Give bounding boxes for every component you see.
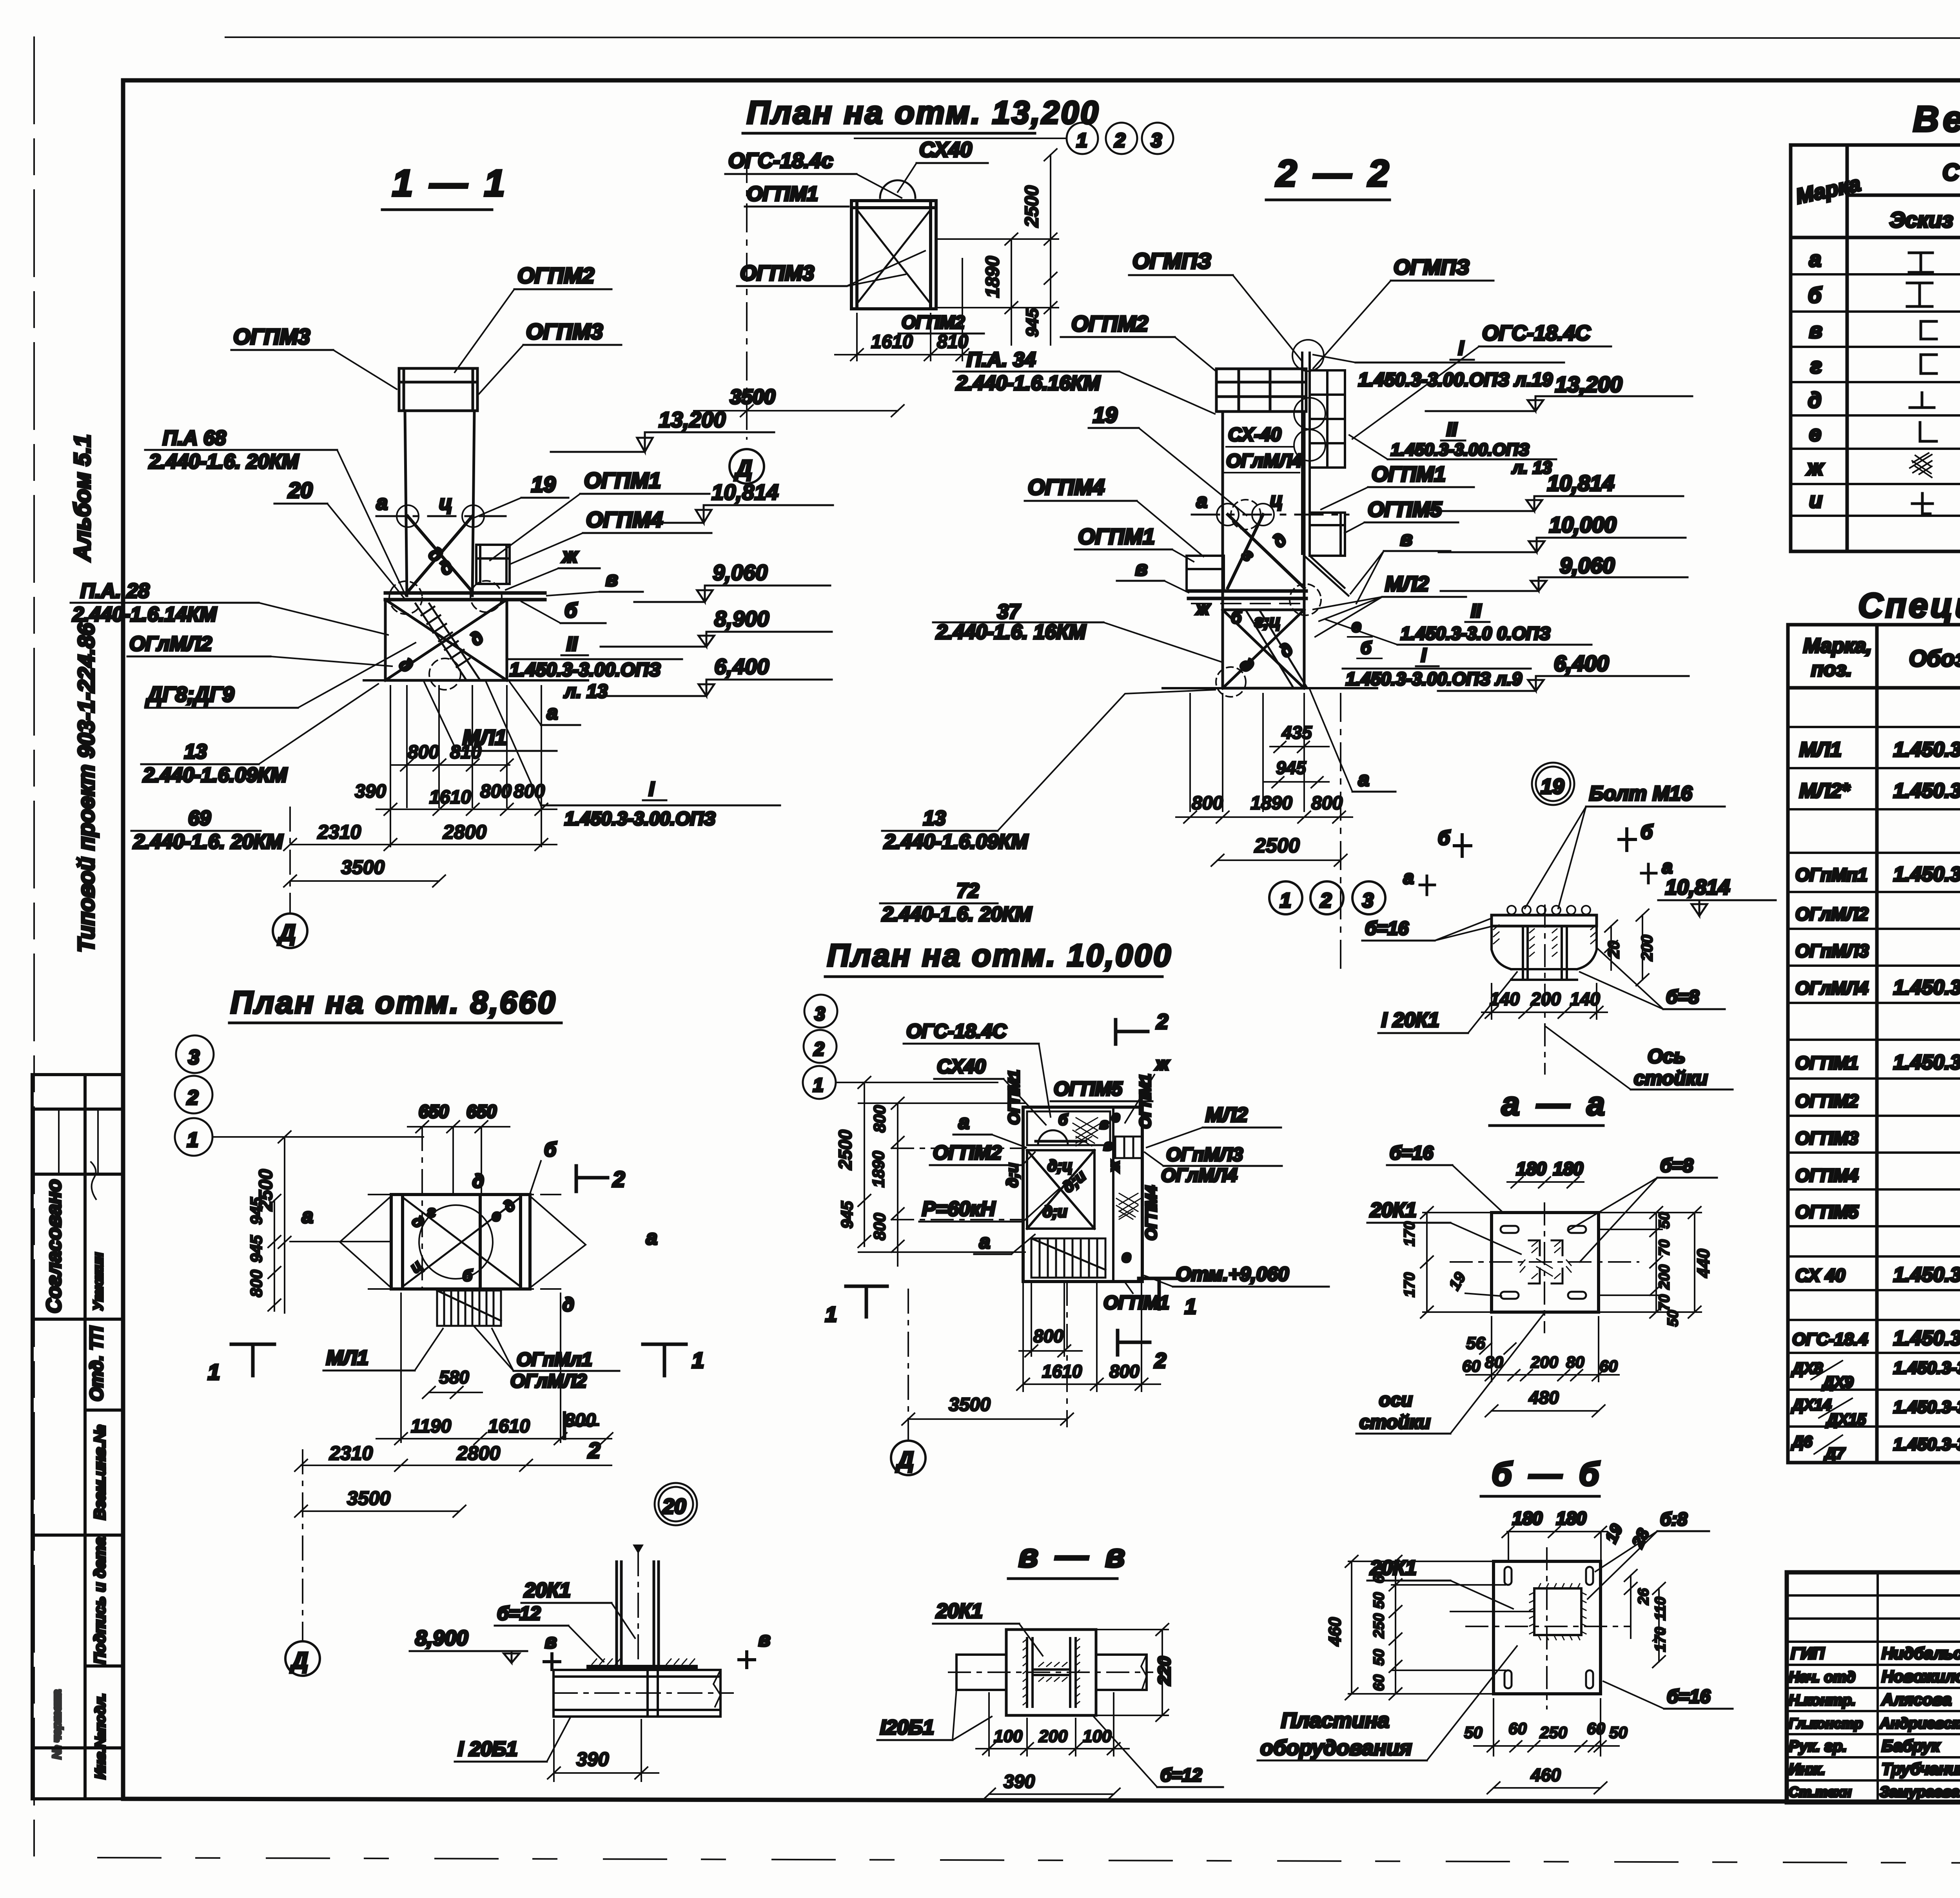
svg-text:Инж.: Инж. <box>1789 1761 1826 1778</box>
section marks <box>846 1286 887 1317</box>
svg-text:1.450.3-3.1 3.1.0.1.0-03: 1.450.3-3.1 3.1.0.1.0-03 <box>1893 1264 1960 1286</box>
svg-text:1890: 1890 <box>982 256 1003 298</box>
svg-text:200: 200 <box>1038 1727 1068 1746</box>
svg-text:І20Б1: І20Б1 <box>880 1716 934 1739</box>
svg-text:3: 3 <box>1151 129 1162 151</box>
lower braced panel 2-2 <box>1223 610 1304 688</box>
svg-text:2800: 2800 <box>456 1442 500 1464</box>
svg-text:10,814: 10,814 <box>1547 471 1614 495</box>
lower ladder ML1 <box>437 1291 501 1326</box>
svg-text:СХ40: СХ40 <box>919 138 972 161</box>
svg-text:810: 810 <box>450 742 481 763</box>
svg-text:60: 60 <box>1371 1675 1387 1691</box>
svg-text:План на отм. 8,660: План на отм. 8,660 <box>230 985 557 1020</box>
svg-text:Алясова: Алясова <box>1881 1690 1951 1709</box>
svg-text:1190: 1190 <box>411 1416 452 1437</box>
svg-text:800: 800 <box>514 781 545 802</box>
svg-text:1.450.3-3.1: 1.450.3-3.1 <box>1893 1435 1960 1454</box>
top cell with SH40 <box>1027 1111 1110 1145</box>
mesh patch top <box>1073 1118 1101 1146</box>
right level marks <box>551 407 833 696</box>
svg-text:50: 50 <box>1371 1592 1387 1609</box>
svg-text:ОГпМл1: ОГпМл1 <box>517 1349 592 1370</box>
svg-text:д: д <box>472 1171 484 1192</box>
svg-text:1.450.3-3.00.ОПЗ л.19: 1.450.3-3.00.ОПЗ л.19 <box>1358 370 1553 390</box>
svg-text:д: д <box>1268 529 1290 551</box>
right dims <box>1624 1570 1669 1668</box>
svg-text:1.450.3-3.1 4.1.2.1.0: 1.450.3-3.1 4.1.2.1.0 <box>1893 976 1960 999</box>
svg-text:д: д <box>466 627 487 650</box>
svg-text:ОГПМ5: ОГПМ5 <box>1368 498 1442 521</box>
svg-text:390: 390 <box>576 1748 609 1770</box>
svg-text:ж: ж <box>1806 455 1824 480</box>
svg-text:б=8: б=8 <box>1660 1155 1693 1176</box>
svg-text:стойки: стойки <box>1634 1067 1708 1089</box>
svg-text:в: в <box>1103 1137 1112 1154</box>
svg-text:6,400: 6,400 <box>1554 651 1609 676</box>
svg-text:II: II <box>566 633 578 655</box>
left margin vertical labels <box>32 434 123 1799</box>
svg-text:а: а <box>1196 490 1207 512</box>
svg-text:а: а <box>302 1205 313 1227</box>
svg-text:б=16: б=16 <box>1390 1143 1433 1164</box>
svg-text:19: 19 <box>1541 775 1564 798</box>
svg-text:а: а <box>1358 768 1369 790</box>
svg-text:б: б <box>1641 821 1653 843</box>
svg-text:ОГПМ5: ОГПМ5 <box>1795 1202 1859 1222</box>
svg-text:1.450.3-3.00.ОПЗ л.9: 1.450.3-3.00.ОПЗ л.9 <box>1346 669 1522 689</box>
ML2 box <box>1115 1137 1142 1158</box>
svg-text:1: 1 <box>187 1129 198 1151</box>
column <box>617 1562 659 1666</box>
svg-text:50: 50 <box>1464 1723 1483 1742</box>
svg-text:б=8: б=8 <box>1666 987 1699 1008</box>
svg-text:2.440-1.6. 20КМ: 2.440-1.6. 20КМ <box>149 450 299 473</box>
svg-text:3: 3 <box>815 1004 825 1024</box>
small dims right <box>1605 909 1656 986</box>
axis D circle <box>273 914 307 948</box>
plan main rect <box>391 1195 530 1289</box>
svg-text:2.440-1.6. 20КМ: 2.440-1.6. 20КМ <box>882 903 1032 926</box>
svg-text:1.450.3-3.00.ОПЗ: 1.450.3-3.00.ОПЗ <box>564 809 716 829</box>
svg-text:3500: 3500 <box>949 1394 991 1415</box>
svg-text:д;ц: д;ц <box>1047 1157 1073 1175</box>
svg-text:Подпись и дата: Подпись и дата <box>91 1537 109 1664</box>
small box OGPM4 right <box>476 545 510 584</box>
ground line <box>1163 687 1377 689</box>
section marks 1 bottom <box>231 1344 274 1376</box>
svg-text:1.450.3-3.1: 1.450.3-3.1 <box>1893 1398 1960 1417</box>
svg-text:I: I <box>649 778 655 800</box>
svg-text:Пластина: Пластина <box>1281 1709 1389 1732</box>
node circles <box>1231 500 1261 529</box>
svg-text:200: 200 <box>1530 989 1561 1009</box>
svg-text:в — в: в — в <box>1018 1537 1129 1574</box>
bolts row <box>1507 906 1590 914</box>
top platform grid <box>1216 369 1306 412</box>
svg-text:ОГПМ3: ОГПМ3 <box>526 319 603 344</box>
svg-text:СХ40: СХ40 <box>937 1055 986 1077</box>
left dims <box>835 1077 1025 1266</box>
svg-text:б — б: б — б <box>1492 1456 1603 1492</box>
svg-text:д: д <box>500 1196 519 1216</box>
svg-text:50: 50 <box>1656 1212 1673 1229</box>
svg-text:2: 2 <box>588 1438 600 1463</box>
detail circle 20 <box>659 1487 693 1521</box>
svg-text:26: 26 <box>1635 1588 1652 1605</box>
svg-text:60: 60 <box>1508 1719 1527 1738</box>
svg-text:ОГлМЛ2: ОГлМЛ2 <box>510 1371 587 1392</box>
svg-text:ОГлМЛ4: ОГлМЛ4 <box>1795 978 1868 998</box>
svg-text:II: II <box>1471 601 1482 622</box>
svg-text:Д: Д <box>895 1447 914 1473</box>
svg-text:Обозначение: Обозначение <box>1909 646 1960 671</box>
right small platform OGPM5 <box>1310 513 1345 556</box>
svg-text:250: 250 <box>1371 1613 1387 1639</box>
svg-text:1.450.3-31 1.2.1.0.0-03: 1.450.3-31 1.2.1.0.0-03 <box>1893 780 1960 802</box>
svg-text:650: 650 <box>419 1101 449 1122</box>
svg-text:2: 2 <box>1320 889 1332 912</box>
svg-text:а — а: а — а <box>1501 1085 1609 1122</box>
svg-text:170: 170 <box>1401 1273 1418 1297</box>
right strip <box>1112 1107 1114 1282</box>
svg-text:ОГПМ3: ОГПМ3 <box>740 261 814 285</box>
svg-text:ж: ж <box>561 544 579 567</box>
svg-text:д: д <box>1808 388 1822 412</box>
axis circle D <box>285 1641 320 1676</box>
plan box <box>851 201 936 309</box>
column shaft 2-2 <box>1223 412 1304 688</box>
svg-text:Рук. гр.: Рук. гр. <box>1789 1738 1847 1755</box>
svg-text:ОГПМ1: ОГПМ1 <box>1137 1074 1154 1129</box>
svg-text:200: 200 <box>1530 1353 1558 1371</box>
svg-text:3500: 3500 <box>341 856 385 878</box>
svg-text:Андриевская: Андриевская <box>1879 1715 1960 1732</box>
svg-text:2500: 2500 <box>835 1129 855 1170</box>
svg-text:г: г <box>427 1203 436 1220</box>
svg-text:Утюжин: Утюжин <box>91 1253 106 1311</box>
svg-text:9,060: 9,060 <box>713 560 768 585</box>
axis circles 3 2 1 <box>176 1035 214 1073</box>
svg-text:2.440-1.6.09КМ: 2.440-1.6.09КМ <box>143 764 288 787</box>
svg-text:ОГПМ2: ОГПМ2 <box>1795 1091 1858 1111</box>
svg-text:б: б <box>463 1267 473 1284</box>
semicircle ladder top <box>880 180 915 198</box>
svg-text:Согласовано: Согласовано <box>43 1179 65 1313</box>
svg-text:План на отм. 13,200: План на отм. 13,200 <box>747 95 1100 131</box>
vedomost table grid <box>1791 145 1960 551</box>
svg-text:180: 180 <box>1516 1158 1546 1179</box>
svg-text:ОГпМЛ3: ОГпМЛ3 <box>1795 941 1869 961</box>
svg-text:180: 180 <box>1556 1508 1586 1528</box>
svg-text:Спецификация элементов на л: Спецификация элементов на лист <box>1858 586 1960 625</box>
svg-text:ОГлМЛ2: ОГлМЛ2 <box>1795 904 1869 924</box>
svg-text:ОГПМ2: ОГПМ2 <box>902 312 965 332</box>
svg-text:ц: ц <box>1270 489 1283 511</box>
signature rows <box>1789 1644 1960 1800</box>
svg-text:69: 69 <box>188 807 211 830</box>
svg-text:3: 3 <box>1362 889 1374 912</box>
svg-text:а: а <box>376 491 388 514</box>
sketch icons column <box>1907 253 1936 514</box>
svg-text:ОГлМЛ2: ОГлМЛ2 <box>129 633 212 655</box>
svg-text:1890: 1890 <box>869 1151 887 1187</box>
svg-text:650: 650 <box>466 1101 497 1122</box>
svg-text:I: I <box>1421 645 1427 666</box>
svg-text:2310: 2310 <box>317 821 361 843</box>
svg-text:2: 2 <box>1156 1010 1168 1033</box>
svg-text:ОГлМЛ4: ОГлМЛ4 <box>1161 1165 1237 1186</box>
svg-text:800: 800 <box>1311 793 1343 814</box>
svg-text:Сечение: Сечение <box>1942 159 1960 185</box>
dim vertical right: 2500/1890/945 <box>936 149 1058 345</box>
svg-text:Типовой проект 903-1-224.86: Типовой проект 903-1-224.86 <box>74 623 99 952</box>
svg-text:2 — 2: 2 — 2 <box>1275 152 1392 194</box>
svg-text:20К1: 20К1 <box>524 1579 571 1602</box>
svg-text:10,814: 10,814 <box>1665 876 1730 899</box>
centerlines <box>1466 1626 1631 1627</box>
svg-text:б=16: б=16 <box>1667 1686 1710 1707</box>
svg-text:2500: 2500 <box>1022 185 1042 228</box>
svg-text:ДХ9: ДХ9 <box>1822 1374 1854 1391</box>
svg-text:1.450.3-3.1 6.1.0.1.0-01: 1.450.3-3.1 6.1.0.1.0-01 <box>1893 1327 1960 1350</box>
svg-text:Бабрук: Бабрук <box>1882 1737 1940 1755</box>
svg-text:1610: 1610 <box>488 1416 530 1437</box>
svg-text:Отм.+9,060: Отм.+9,060 <box>1176 1263 1289 1285</box>
svg-text:20К1: 20К1 <box>936 1600 983 1622</box>
svg-text:Нач. отд: Нач. отд <box>1789 1669 1855 1686</box>
svg-text:6,400: 6,400 <box>714 654 769 679</box>
level 10,814 platform line with axis circles <box>376 515 506 517</box>
svg-text:440: 440 <box>1694 1249 1713 1278</box>
svg-text:945: 945 <box>838 1201 856 1229</box>
svg-text:20К1: 20К1 <box>1370 1199 1417 1222</box>
svg-text:МЛ2: МЛ2 <box>1385 572 1429 596</box>
svg-text:460: 460 <box>1325 1617 1345 1646</box>
svg-text:в: в <box>1100 1116 1109 1132</box>
svg-text:800: 800 <box>564 1410 596 1431</box>
svg-text:Марка,: Марка, <box>1803 634 1872 657</box>
svg-text:ОГпМЛ3: ОГпМЛ3 <box>1166 1144 1243 1165</box>
svg-text:Замураева: Замураева <box>1880 1784 1960 1800</box>
svg-text:ОГПМ1: ОГПМ1 <box>584 468 661 493</box>
svg-text:390: 390 <box>355 781 386 802</box>
OGPM1 left platform box <box>1187 556 1224 591</box>
bottom dims <box>1462 1317 1619 1417</box>
braces X <box>408 516 472 592</box>
square hole with tick border <box>1534 1588 1581 1635</box>
center clips with hatch <box>1529 1240 1563 1283</box>
svg-text:е: е <box>1122 1247 1131 1265</box>
svg-text:ОГПМ2: ОГПМ2 <box>933 1142 1002 1164</box>
braces <box>1228 515 1304 588</box>
svg-text:№ чертежа: № чертежа <box>51 1690 64 1759</box>
svg-text:1: 1 <box>825 1303 837 1326</box>
svg-text:800: 800 <box>1033 1326 1063 1346</box>
svg-text:б: б <box>1361 638 1372 658</box>
svg-text:8,900: 8,900 <box>415 1626 468 1650</box>
flange plate <box>1006 1630 1096 1715</box>
svg-text:ОГПМ1: ОГПМ1 <box>1078 524 1155 549</box>
centerlines <box>1450 1261 1639 1263</box>
svg-text:100: 100 <box>994 1727 1023 1746</box>
svg-text:480: 480 <box>1528 1387 1559 1408</box>
svg-text:СХ-40: СХ-40 <box>1228 424 1281 445</box>
svg-text:ОГПМ4: ОГПМ4 <box>586 507 663 532</box>
svg-text:1: 1 <box>692 1348 704 1372</box>
svg-text:ОГС-18.4С: ОГС-18.4С <box>906 1020 1007 1042</box>
svg-text:II: II <box>1446 419 1457 440</box>
svg-text:П.А 68: П.А 68 <box>163 427 226 450</box>
bottom dims 2-2 <box>1176 694 1352 972</box>
svg-text:1.450.3-3.1: 1.450.3-3.1 <box>1893 1358 1960 1378</box>
svg-text:б=16: б=16 <box>1365 918 1408 939</box>
mesh icon row zh <box>1910 453 1932 477</box>
level 10,814 line + circles <box>1192 514 1348 516</box>
axis circles <box>804 995 837 1028</box>
svg-text:9,060: 9,060 <box>1560 553 1615 578</box>
dims 140 200 140 <box>1482 984 1607 1019</box>
plate <box>1492 1213 1599 1312</box>
svg-text:б: б <box>564 599 578 622</box>
svg-text:ОГПМ1: ОГПМ1 <box>1372 462 1446 486</box>
platform band <box>1189 591 1306 598</box>
svg-text:ОГПМ5: ОГПМ5 <box>1054 1078 1123 1100</box>
svg-text:945: 945 <box>247 1235 265 1263</box>
ladder diagonal with rungs <box>416 604 480 680</box>
svg-text:Ведомость элементов: Ведомость элементов <box>1913 99 1960 139</box>
svg-text:а: а <box>979 1231 990 1253</box>
svg-text:ОГС-18.4: ОГС-18.4 <box>1792 1330 1868 1349</box>
dims below <box>976 1693 1129 1800</box>
svg-text:Гл.констр: Гл.констр <box>1789 1715 1863 1731</box>
svg-text:І 20Б1: І 20Б1 <box>458 1738 517 1760</box>
axis circles 1 2 3 bottom <box>1269 881 1302 914</box>
svg-text:ж: ж <box>1154 1053 1170 1074</box>
svg-text:ОГПМ4: ОГПМ4 <box>1143 1186 1160 1240</box>
svg-text:и: и <box>1809 488 1822 512</box>
svg-text:Н.контр.: Н.контр. <box>1789 1692 1856 1709</box>
svg-text:170: 170 <box>1401 1222 1418 1246</box>
svg-text:1610: 1610 <box>1042 1361 1082 1381</box>
svg-text:1: 1 <box>1185 1295 1196 1318</box>
svg-text:ОГМПЗ: ОГМПЗ <box>1132 248 1211 273</box>
svg-text:План на отм. 10,000: План на отм. 10,000 <box>827 938 1172 973</box>
svg-text:2: 2 <box>1154 1349 1166 1372</box>
svg-text:ДХ14: ДХ14 <box>1791 1396 1831 1414</box>
right stub <box>1096 1655 1147 1690</box>
svg-text:б: б <box>544 1138 557 1160</box>
svg-text:в: в <box>545 1630 557 1652</box>
svg-text:МЛ2: МЛ2 <box>1205 1104 1248 1126</box>
svg-text:Ст.техн: Ст.техн <box>1789 1784 1852 1800</box>
axis circles 1 2 3 <box>1067 123 1098 154</box>
svg-text:1.450.3-3.00.ОПЗ: 1.450.3-3.00.ОПЗ <box>1391 440 1529 459</box>
svg-text:а: а <box>1403 867 1414 888</box>
svg-text:ГИП: ГИП <box>1791 1644 1825 1662</box>
svg-text:в: в <box>606 568 618 591</box>
svg-text:945: 945 <box>247 1197 265 1225</box>
svg-text:МЛ1: МЛ1 <box>1799 738 1842 761</box>
top plate <box>1492 915 1597 926</box>
specification table <box>1788 586 1960 1464</box>
svg-text:МЛ1: МЛ1 <box>326 1347 368 1369</box>
svg-text:70: 70 <box>1656 1294 1673 1311</box>
svg-text:ОГПМ1: ОГПМ1 <box>1795 1053 1858 1073</box>
left dims <box>1401 1207 1501 1318</box>
svg-text:3500: 3500 <box>347 1487 390 1509</box>
svg-text:Отд. ТП: Отд. ТП <box>86 1326 107 1401</box>
svg-text:Трубчанина: Трубчанина <box>1882 1760 1960 1778</box>
svg-text:1 — 1: 1 — 1 <box>392 162 508 204</box>
bottom dims <box>902 1282 1160 1441</box>
svg-text:Д: Д <box>290 1648 308 1673</box>
title block <box>1787 1572 1960 1886</box>
bottom dimension chains <box>284 686 557 913</box>
svg-text:1.450.3-31 1.2.1.0.0-07: 1.450.3-31 1.2.1.0.0-07 <box>1893 738 1960 761</box>
svg-text:180: 180 <box>1553 1158 1583 1179</box>
svg-text:50: 50 <box>1609 1723 1628 1742</box>
svg-text:200: 200 <box>1639 935 1656 961</box>
svg-text:20: 20 <box>662 1495 686 1518</box>
svg-text:19: 19 <box>531 472 555 497</box>
svg-text:а: а <box>547 702 558 723</box>
svg-text:ОГПМ1: ОГПМ1 <box>1005 1070 1023 1125</box>
svg-text:П.А. 34: П.А. 34 <box>967 348 1036 371</box>
body <box>1492 926 1597 980</box>
svg-text:100: 100 <box>1083 1727 1112 1746</box>
transition braces to right <box>1304 556 1348 596</box>
svg-text:1890: 1890 <box>1250 793 1292 814</box>
svg-text:г: г <box>1810 353 1822 378</box>
big circles on ladder <box>1292 340 1324 371</box>
left stub <box>956 1655 1006 1690</box>
right dims <box>1601 1207 1713 1327</box>
svg-text:а: а <box>958 1111 969 1133</box>
svg-text:стойки: стойки <box>1359 1412 1430 1433</box>
plate <box>1494 1561 1601 1694</box>
svg-text:13: 13 <box>184 740 207 763</box>
left stamp table <box>32 1075 123 1799</box>
svg-text:в: в <box>1809 318 1822 343</box>
svg-text:1610: 1610 <box>871 332 913 352</box>
svg-text:ОГМПЗ: ОГМПЗ <box>1394 256 1470 279</box>
svg-text:140: 140 <box>1490 989 1520 1009</box>
svg-text:ОГПМ1: ОГПМ1 <box>747 183 818 205</box>
H column section inside <box>1027 1638 1076 1707</box>
svg-text:1: 1 <box>1280 889 1291 912</box>
svg-text:Инв.№подл.: Инв.№подл. <box>92 1693 108 1779</box>
svg-text:ДХ15: ДХ15 <box>1826 1411 1866 1428</box>
svg-text:2310: 2310 <box>329 1442 373 1464</box>
svg-text:56: 56 <box>1466 1334 1485 1353</box>
svg-text:800: 800 <box>247 1270 265 1297</box>
svg-text:ОГПМ4: ОГПМ4 <box>1795 1165 1858 1186</box>
svg-text:1.450.3-3.0 0.ОПЗ: 1.450.3-3.0 0.ОПЗ <box>1401 623 1550 644</box>
svg-text:140: 140 <box>1570 989 1600 1009</box>
svg-text:ц: ц <box>439 491 452 514</box>
svg-text:2: 2 <box>612 1167 625 1191</box>
upper right box grid <box>1310 370 1345 468</box>
svg-text:180: 180 <box>1512 1508 1543 1528</box>
svg-text:200: 200 <box>1656 1265 1673 1290</box>
svg-text:2800: 2800 <box>443 821 486 843</box>
svg-text:2.440-1.6. 20КМ: 2.440-1.6. 20КМ <box>133 830 283 853</box>
svg-text:2.440-1.6.14КМ: 2.440-1.6.14КМ <box>72 603 217 626</box>
svg-text:д;и: д;и <box>1043 1203 1067 1220</box>
svg-text:б: б <box>1808 283 1822 307</box>
svg-text:ОГПМ2: ОГПМ2 <box>517 263 594 288</box>
